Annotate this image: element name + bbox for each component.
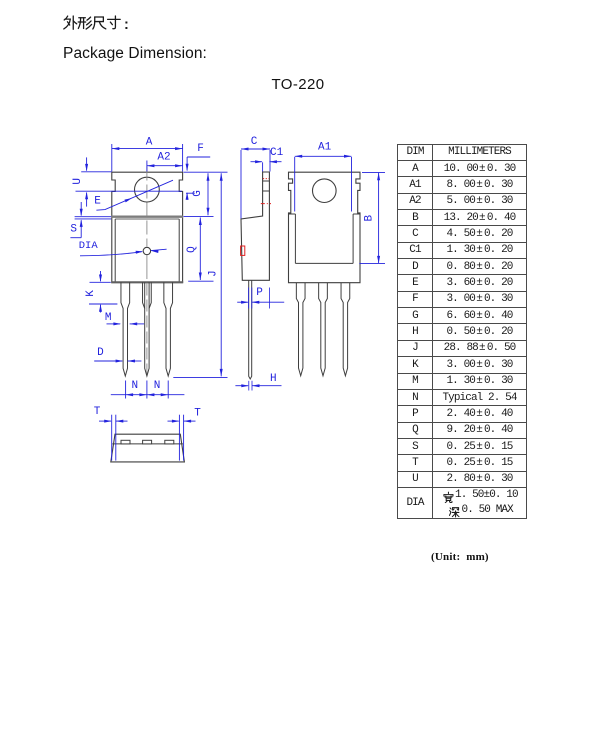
svg-text:J: J (208, 270, 220, 277)
svg-text:T: T (94, 406, 101, 418)
svg-text:D: D (97, 347, 104, 359)
svg-text:P: P (256, 287, 263, 299)
svg-text:G: G (192, 190, 204, 197)
svg-text:N: N (154, 380, 161, 392)
svg-text:S: S (70, 224, 77, 236)
svg-text:F: F (197, 143, 204, 155)
svg-text:B: B (364, 215, 376, 222)
svg-text:N: N (131, 380, 138, 392)
svg-text:C: C (251, 136, 258, 148)
svg-text:M: M (105, 312, 112, 324)
svg-text:H: H (270, 373, 277, 385)
svg-text:E: E (94, 195, 101, 207)
svg-text:Q: Q (186, 246, 198, 253)
svg-text:DIA: DIA (79, 240, 99, 252)
svg-text:A1: A1 (318, 141, 332, 153)
svg-text:A: A (146, 137, 153, 149)
svg-text:C1: C1 (270, 147, 284, 159)
svg-text:A2: A2 (157, 151, 170, 163)
svg-text:K: K (85, 290, 97, 297)
svg-text:T: T (194, 408, 201, 420)
svg-text:U: U (72, 178, 84, 185)
